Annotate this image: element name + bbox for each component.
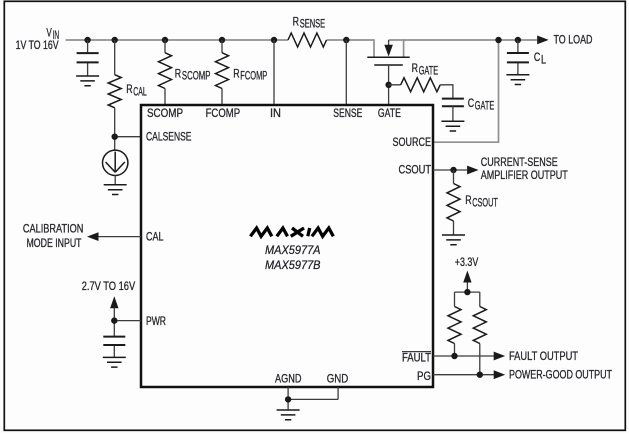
svg-text:POWER-GOOD OUTPUT: POWER-GOOD OUTPUT [509, 368, 612, 382]
svg-text:R: R [126, 82, 132, 96]
svg-text:1V TO 16V: 1V TO 16V [16, 38, 59, 52]
junction dot PG [477, 372, 483, 378]
arrow 3.3V up [463, 271, 471, 283]
svg-text:C: C [534, 50, 541, 64]
svg-text:CAL: CAL [146, 229, 164, 243]
arrow PG output [494, 370, 506, 379]
wire CAL [98, 236, 142, 238]
svg-text:FCOMP: FCOMP [240, 69, 267, 83]
wire [389, 85, 453, 99]
junction dot SCOMP [162, 37, 168, 43]
wire VIN rail [66, 39, 288, 41]
svg-text:MODE INPUT: MODE INPUT [27, 236, 82, 250]
svg-text:CALSENSE: CALSENSE [146, 130, 192, 144]
logo MAXIM [250, 228, 333, 236]
wire [453, 170, 455, 235]
wire [517, 40, 519, 75]
svg-text:AMPLIFIER OUTPUT: AMPLIFIER OUTPUT [481, 168, 568, 182]
svg-text:PG: PG [417, 369, 431, 383]
arrow supply up [110, 296, 118, 308]
svg-text:R: R [175, 66, 181, 80]
resistor RCSOUT [447, 184, 460, 222]
wire GATE pin [388, 65, 390, 105]
svg-text:R: R [465, 193, 471, 207]
current source I-CAL [103, 150, 128, 175]
resistor RSCOMP [159, 53, 172, 89]
svg-text:CAL: CAL [133, 85, 147, 99]
svg-text:GATE: GATE [475, 98, 495, 112]
junction dot IN [271, 37, 277, 43]
svg-text:CSOUT: CSOUT [472, 196, 498, 210]
svg-text:GATE: GATE [378, 106, 401, 120]
ground [76, 76, 99, 86]
arrow TO LOAD [537, 36, 549, 45]
ground AGND [277, 410, 300, 420]
capacitor PWR bypass [103, 337, 125, 345]
resistor pullup PG [473, 307, 486, 344]
junction dot FAULT [451, 353, 457, 359]
svg-text:FAULT: FAULT [402, 350, 431, 364]
capacitor CL [507, 53, 529, 62]
ground [103, 357, 126, 367]
wire pullup tree [455, 283, 480, 375]
junction dot PWR [111, 317, 117, 323]
ground [104, 185, 127, 195]
arrow FAULT output [494, 352, 506, 361]
wire SOURCE loop [433, 40, 499, 142]
svg-text:AGND: AGND [275, 372, 302, 386]
wire IN pin [273, 40, 275, 105]
junction dot AGND [285, 396, 291, 402]
ground [441, 121, 464, 131]
svg-text:CURRENT-SENSE: CURRENT-SENSE [481, 155, 558, 169]
svg-text:TO LOAD: TO LOAD [554, 33, 593, 47]
junction dot VIN bulk cap [84, 37, 90, 43]
svg-text:CALIBRATION: CALIBRATION [23, 222, 84, 236]
junction dot CL [515, 37, 521, 43]
resistor pullup FAULT [448, 307, 461, 344]
junction dot FCOMP [219, 37, 225, 43]
junction dot CALSENSE [112, 134, 118, 140]
capacitor CGATE [442, 99, 464, 107]
junction dot GATE [385, 82, 391, 88]
resistor RCAL [108, 75, 121, 108]
resistor RFCOMP [216, 53, 229, 89]
wire AGND GND [288, 387, 338, 410]
svg-text:PWR: PWR [146, 314, 166, 328]
svg-text:IN: IN [270, 106, 281, 120]
arrow CSOUT output [467, 166, 479, 175]
svg-text:MAX5977B: MAX5977B [265, 258, 321, 272]
svg-text:FAULT OUTPUT: FAULT OUTPUT [509, 349, 578, 363]
wire [114, 176, 116, 185]
wire [115, 40, 141, 150]
op-amp U1 MAX5977 IC box [141, 105, 433, 387]
transistor pass PFET [374, 39, 404, 57]
svg-text:R: R [412, 61, 418, 75]
wire FAULT [433, 355, 494, 357]
ground [506, 75, 529, 85]
svg-text:+3.3V: +3.3V [455, 255, 479, 269]
svg-text:GND: GND [327, 372, 349, 386]
junction dot CSOUT [450, 167, 456, 173]
resistor RGATE [401, 78, 441, 92]
wire [164, 40, 166, 105]
wire [221, 40, 223, 105]
junction dot SOURCE loop [495, 37, 501, 43]
svg-text:SENSE: SENSE [300, 17, 326, 31]
svg-text:SCOMP: SCOMP [147, 106, 183, 120]
svg-text:SCOMP: SCOMP [182, 69, 211, 83]
capacitor input bypass [77, 53, 99, 62]
svg-text:R: R [293, 14, 299, 28]
wire CSOUT [433, 169, 467, 171]
resistor RSENSE [288, 33, 327, 47]
wire PWR [114, 308, 141, 357]
svg-text:C: C [468, 96, 475, 110]
wire [87, 40, 89, 76]
wire SENSE pin [345, 40, 347, 105]
junction dot 3.3V [464, 289, 470, 295]
arrow CAL input [87, 232, 99, 241]
svg-text:R: R [233, 66, 239, 80]
svg-text:GATE: GATE [419, 64, 439, 78]
junction dot SENSE [343, 37, 349, 43]
ground [442, 235, 465, 245]
svg-text:L: L [541, 52, 546, 66]
svg-text:SENSE: SENSE [333, 106, 362, 120]
svg-text:SOURCE: SOURCE [393, 135, 432, 149]
svg-text:MAX5977A: MAX5977A [265, 243, 321, 257]
svg-text:FCOMP: FCOMP [206, 106, 241, 120]
junction dot RCAL top [112, 37, 118, 43]
svg-text:2.7V TO 16V: 2.7V TO 16V [82, 279, 136, 293]
wire [452, 106, 454, 121]
wire PG [433, 374, 494, 376]
svg-text:CSOUT: CSOUT [399, 163, 432, 177]
